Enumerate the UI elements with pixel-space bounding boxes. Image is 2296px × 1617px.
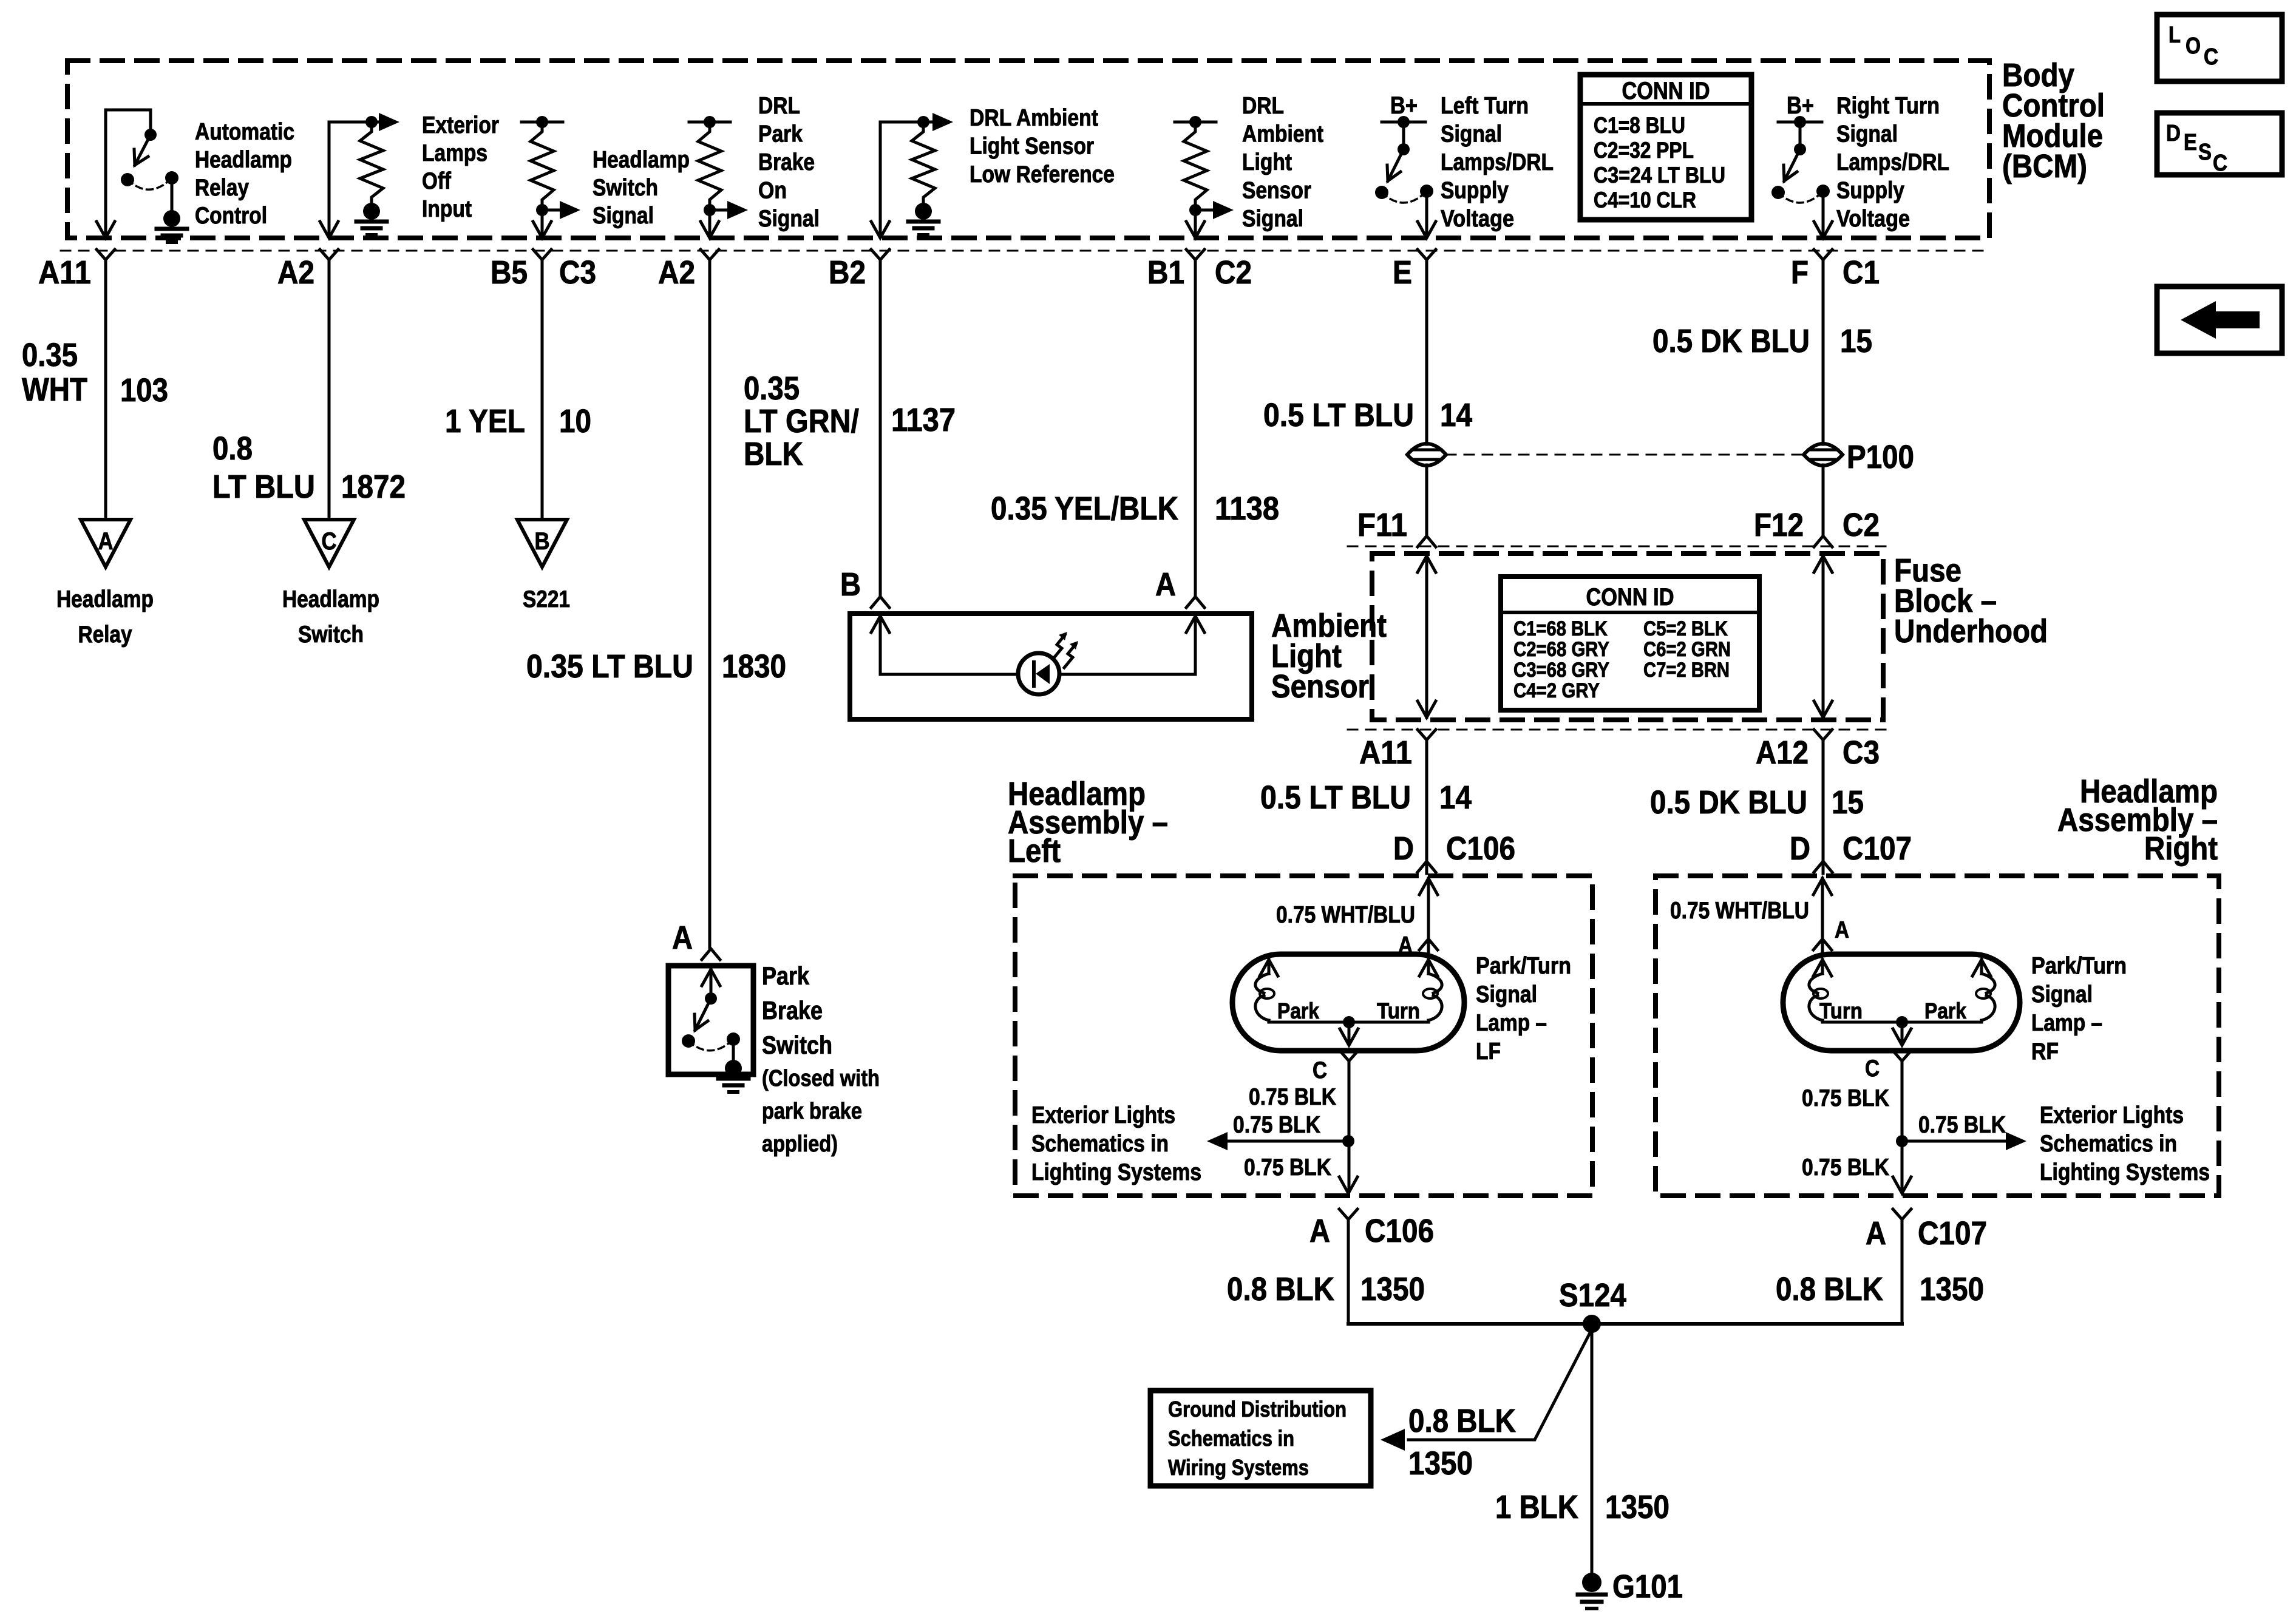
node R3 bottom junction (704, 204, 716, 216)
pin A C106 exit arrow (1339, 1177, 1357, 1193)
wire 103 WHT (104, 260, 107, 520)
resistor R2 headlamp switch signal (531, 125, 554, 206)
wire lamp RF ground leg (1901, 1061, 1904, 1191)
svg-text:Headlamp: Headlamp (593, 147, 690, 173)
wire 1872 LT BLU (328, 260, 331, 520)
svg-text:D: D (1393, 830, 1414, 867)
BCM harness connector dashed line (61, 250, 1985, 252)
photodiode light arrows (1053, 635, 1065, 659)
wire 1138 YEL/BLK (1194, 260, 1197, 597)
svg-text:1830: 1830 (722, 648, 786, 685)
Fuse Block - Underhood dashed box (1372, 554, 1883, 720)
svg-text:1350: 1350 (1360, 1271, 1425, 1307)
pin A C107 exit arrow (1893, 1177, 1911, 1193)
lamp RF common down arrow (1901, 1022, 1904, 1043)
svg-text:C107: C107 (1843, 830, 1912, 867)
resistor R3 DRL park brake (698, 125, 721, 206)
svg-text:B1: B1 (1147, 254, 1184, 291)
svg-text:C3: C3 (559, 254, 596, 291)
svg-text:S124: S124 (1559, 1277, 1626, 1314)
svg-text:G101: G101 (1612, 1568, 1683, 1605)
svg-text:Lighting Systems: Lighting Systems (1031, 1159, 1201, 1185)
wire lamp RF feed (1813, 878, 1832, 895)
svg-text:0.75 BLK: 0.75 BLK (1244, 1154, 1331, 1181)
svg-text:Voltage: Voltage (1441, 206, 1514, 232)
svg-text:0.35: 0.35 (744, 370, 800, 407)
svg-text:0.75 BLK: 0.75 BLK (1249, 1084, 1336, 1110)
svg-text:15: 15 (1840, 323, 1872, 359)
park brake switch moving contact (682, 1034, 695, 1048)
svg-text:Automatic: Automatic (195, 119, 294, 145)
svg-text:14: 14 (1440, 397, 1472, 433)
wire headlamp switch signal rail (521, 121, 563, 124)
wire 15 DK BLU upper (1822, 260, 1825, 444)
svg-text:C1=8 BLU: C1=8 BLU (1594, 113, 1685, 138)
svg-text:DRL: DRL (758, 93, 800, 119)
ground G101 (1582, 1573, 1601, 1592)
svg-text:Switch: Switch (762, 1031, 832, 1059)
photodiode D1 symbol (1036, 664, 1050, 684)
connector triangle A headlamp relay (81, 520, 131, 567)
wire B+ feed bar (1778, 121, 1822, 124)
svg-text:0.5 DK BLU: 0.5 DK BLU (1650, 784, 1807, 821)
switch moving contact (1375, 186, 1388, 199)
svg-text:Schematics in: Schematics in (1031, 1131, 1169, 1157)
svg-text:O: O (2186, 33, 2201, 59)
lamp LF turn filament (1419, 960, 1438, 976)
svg-text:C2: C2 (1843, 507, 1880, 543)
wire exterior lamps off top segment (329, 121, 373, 124)
svg-text:0.5 DK BLU: 0.5 DK BLU (1652, 323, 1810, 359)
svg-text:E: E (2184, 130, 2197, 155)
connector P100 dashed link (1446, 454, 1804, 456)
svg-text:A: A (672, 920, 693, 956)
pin B1 arrow (1186, 222, 1204, 238)
svg-text:D: D (1790, 830, 1810, 867)
wire 1350 left (1347, 1219, 1350, 1324)
svg-text:Headlamp: Headlamp (195, 147, 292, 173)
pin A C106 Y (1339, 1209, 1357, 1219)
Headlamp Assembly Left dashed box (1015, 876, 1592, 1196)
pin A11 arrow (97, 222, 115, 238)
svg-text:0.75 BLK: 0.75 BLK (1918, 1112, 2006, 1138)
sensor internal bus (880, 673, 1018, 676)
resistor R1 exterior lamps off (360, 125, 383, 204)
svg-text:S: S (2198, 140, 2212, 165)
pin C lamp LF Y (1340, 1051, 1358, 1061)
pin F12 chevron (1814, 536, 1832, 547)
wire A2 park brake drop (708, 210, 712, 237)
svg-text:E: E (1393, 254, 1412, 291)
svg-text:LF: LF (1476, 1039, 1501, 1065)
svg-text:C7=2 BRN: C7=2 BRN (1643, 659, 1730, 682)
svg-text:B5: B5 (491, 254, 528, 291)
svg-text:(BCM): (BCM) (2002, 148, 2087, 185)
svg-text:CONN ID: CONN ID (1586, 584, 1674, 611)
Ambient Light Sensor box (850, 614, 1252, 719)
splice S124 (1583, 1315, 1601, 1333)
node B+ junction (1398, 116, 1410, 128)
pin A lamp RF chevron (1813, 939, 1832, 950)
pin A park brake chevron (702, 949, 720, 960)
pin B2 arrow (871, 222, 889, 238)
pin F11 chevron (1418, 536, 1436, 547)
switch S-auto arm (135, 135, 151, 165)
svg-text:B: B (535, 528, 550, 555)
svg-text:DRL: DRL (1242, 93, 1284, 119)
svg-text:15: 15 (1832, 784, 1864, 821)
pin B2 connector Y (871, 249, 889, 260)
wire B+ feed bar (1382, 121, 1425, 124)
svg-text:B+: B+ (1787, 92, 1814, 119)
svg-text:C: C (2213, 151, 2227, 176)
svg-text:Light Sensor: Light Sensor (970, 134, 1094, 160)
svg-text:RF: RF (2031, 1039, 2059, 1065)
svg-text:C: C (2204, 44, 2218, 70)
wire ground rail S124 (1348, 1322, 1902, 1326)
wire lens to fuse block (1425, 465, 1428, 535)
park brake switch box (668, 966, 753, 1074)
svg-text:0.5 LT BLU: 0.5 LT BLU (1263, 397, 1414, 433)
wire 1350 right (1901, 1219, 1904, 1324)
svg-text:Exterior Lights: Exterior Lights (2040, 1102, 2184, 1128)
svg-text:Right Turn: Right Turn (1836, 93, 1940, 119)
svg-text:A2: A2 (658, 254, 695, 291)
svg-text:A11: A11 (38, 254, 91, 291)
wire S124 to ground distribution (1408, 1329, 1592, 1440)
svg-text:Turn: Turn (1819, 998, 1863, 1023)
svg-text:Ground Distribution: Ground Distribution (1168, 1397, 1347, 1422)
svg-text:Supply: Supply (1836, 178, 1904, 204)
svg-text:0.35 YEL/BLK: 0.35 YEL/BLK (991, 490, 1178, 527)
BCM CONN ID table (1580, 75, 1751, 220)
svg-text:L: L (2169, 22, 2181, 48)
node resistor R2 top (536, 116, 548, 128)
wire lamp LF ground leg (1348, 1061, 1351, 1191)
arrow to DRL Ambient Light Sensor Signal (1195, 209, 1215, 212)
svg-text:C2=32 PPL: C2=32 PPL (1594, 138, 1694, 163)
svg-text:B+: B+ (1390, 92, 1418, 119)
svg-text:CONN ID: CONN ID (1622, 78, 1710, 104)
svg-text:Signal: Signal (2031, 981, 2093, 1008)
lamp RF turn filament (1813, 960, 1832, 976)
photodiode D1 circle (1018, 653, 1059, 694)
node LF ground splice (1342, 1135, 1354, 1147)
svg-text:Left Turn: Left Turn (1441, 93, 1529, 119)
svg-text:Exterior Lights: Exterior Lights (1031, 1102, 1175, 1128)
svg-text:Brake: Brake (758, 149, 815, 175)
svg-text:Supply: Supply (1441, 178, 1509, 204)
svg-text:Switch: Switch (593, 175, 658, 201)
svg-text:0.75 WHT/BLU: 0.75 WHT/BLU (1276, 902, 1415, 928)
ground internal BCM relay (163, 210, 180, 227)
switch S-auto fixed contact (165, 171, 178, 185)
switch fixed contact (1816, 185, 1830, 198)
svg-text:Voltage: Voltage (1836, 206, 1910, 232)
svg-text:F: F (1791, 254, 1809, 291)
lamp LF internal bus (1269, 1021, 1428, 1024)
node RF ground splice (1896, 1135, 1908, 1147)
svg-text:Park/Turn: Park/Turn (1476, 953, 1571, 979)
park brake switch input arrow (702, 969, 720, 986)
park brake switch travel arc (688, 1039, 733, 1051)
fuse block connector dashed line bottom (1348, 729, 1891, 731)
pin A2 arrow (320, 222, 338, 238)
svg-text:Lamps/DRL: Lamps/DRL (1836, 149, 1949, 175)
pin A2 connector Y (320, 249, 338, 260)
svg-text:Park: Park (758, 121, 803, 147)
wire A2 exterior lamps off (328, 122, 331, 237)
inline connector P100 left lens (1407, 444, 1446, 466)
LOC box (2157, 15, 2282, 81)
svg-text:C2: C2 (1215, 254, 1252, 291)
wire lamp LF feed (1419, 878, 1438, 895)
svg-text:A: A (1866, 1215, 1886, 1252)
svg-text:B2: B2 (829, 254, 866, 291)
node R5 bottom junction (1189, 204, 1201, 216)
svg-text:1 BLK: 1 BLK (1495, 1489, 1578, 1525)
svg-text:Signal: Signal (758, 206, 820, 232)
pin A11 fuse connector Y (1418, 730, 1436, 740)
svg-text:0.35 LT BLU: 0.35 LT BLU (526, 648, 693, 685)
pin A2 park brake arrow (701, 222, 719, 238)
svg-text:0.5 LT BLU: 0.5 LT BLU (1260, 779, 1411, 816)
switch S-auto moving contact (121, 173, 134, 186)
svg-text:C107: C107 (1918, 1215, 1987, 1252)
svg-text:Wiring Systems: Wiring Systems (1168, 1455, 1309, 1480)
svg-text:Park/Turn: Park/Turn (2031, 953, 2127, 979)
svg-text:C: C (1313, 1057, 1327, 1083)
pin D left chevron (1418, 861, 1436, 872)
splice triangle B S221 (517, 520, 567, 567)
wire to exterior lights schematics left (1228, 1140, 1348, 1143)
Park/Turn Signal Lamp RF stadium (1783, 954, 2020, 1051)
svg-text:Input: Input (422, 196, 472, 222)
sensor pin B internal arrow (871, 616, 889, 632)
pin F connector Y (1814, 249, 1832, 260)
pin A2 park brake connector Y (701, 249, 719, 260)
svg-text:Signal: Signal (1836, 121, 1898, 147)
switch S-auto travel arc (127, 178, 172, 189)
svg-text:applied): applied) (762, 1131, 838, 1157)
svg-text:1350: 1350 (1605, 1489, 1669, 1525)
switch pivot (1398, 143, 1410, 155)
wire 1137 LT GRN/BLK (879, 260, 882, 597)
svg-text:A: A (98, 528, 114, 555)
pin D right chevron (1814, 861, 1832, 872)
svg-text:0.75 WHT/BLU: 0.75 WHT/BLU (1670, 898, 1809, 924)
inline connector P100 right lens (1804, 444, 1843, 466)
wire BCM relay control top segment (106, 109, 151, 112)
wire F drop (1822, 191, 1825, 237)
svg-text:C1=68 BLK: C1=68 BLK (1513, 617, 1608, 640)
switch arm (1388, 149, 1404, 181)
svg-text:Schematics in: Schematics in (2040, 1131, 2177, 1157)
switch pivot (1794, 143, 1806, 155)
park brake switch fixed contact (727, 1032, 740, 1046)
svg-text:C106: C106 (1446, 830, 1515, 867)
svg-text:D: D (2166, 121, 2181, 146)
svg-text:10: 10 (559, 403, 591, 439)
svg-text:C4=2 GRY: C4=2 GRY (1513, 679, 1600, 702)
svg-text:Signal: Signal (593, 203, 654, 229)
switch S-auto pivot (144, 129, 157, 141)
svg-text:1138: 1138 (1215, 490, 1279, 527)
switch fixed contact (1420, 185, 1433, 198)
svg-text:F12: F12 (1754, 507, 1804, 543)
svg-text:A11: A11 (1359, 734, 1412, 771)
svg-text:1350: 1350 (1920, 1271, 1984, 1307)
node resistor R5 top (1189, 116, 1201, 128)
lamp LF park filament (1260, 960, 1278, 976)
wire switch pivot lead (1402, 122, 1405, 149)
wire B1 drop (1194, 210, 1197, 237)
svg-text:1 YEL: 1 YEL (445, 403, 525, 439)
svg-text:Lamp –: Lamp – (2031, 1010, 2102, 1036)
svg-text:0.35: 0.35 (22, 337, 78, 373)
svg-text:Headlamp: Headlamp (282, 586, 379, 612)
svg-text:Underhood: Underhood (1894, 613, 2048, 649)
svg-text:103: 103 (120, 372, 168, 408)
svg-text:C3=24 LT BLU: C3=24 LT BLU (1594, 163, 1725, 188)
svg-text:Exterior: Exterior (422, 112, 499, 138)
svg-text:DRL Ambient: DRL Ambient (970, 105, 1098, 131)
svg-text:C106: C106 (1365, 1213, 1434, 1249)
wire to exterior lights schematics right (1902, 1140, 2005, 1143)
svg-text:Turn: Turn (1377, 998, 1420, 1023)
svg-text:A: A (1155, 566, 1176, 603)
wire park brake signal rail (689, 121, 730, 124)
pin A sensor chevron (1186, 597, 1204, 608)
Headlamp Assembly Right dashed box (1656, 876, 2219, 1196)
wire fixed contact to ground (171, 178, 174, 210)
wire switch pivot lead (1799, 122, 1802, 149)
arrow to Headlamp Switch Signal (542, 209, 562, 212)
wire fixed contact to case ground (732, 1039, 735, 1062)
svg-text:WHT: WHT (22, 371, 87, 408)
connector triangle C headlamp switch (304, 520, 354, 567)
switch travel arc (1778, 191, 1823, 203)
svg-text:0.8: 0.8 (212, 430, 253, 467)
node resistor R1 top (365, 116, 378, 128)
DESC box (2157, 113, 2282, 175)
wire 10 YEL (541, 260, 544, 520)
svg-text:1137: 1137 (891, 402, 956, 438)
svg-text:C5=2 BLK: C5=2 BLK (1643, 617, 1728, 640)
svg-text:On: On (758, 178, 787, 204)
svg-text:A12: A12 (1756, 734, 1809, 771)
pin A11 connector Y (97, 249, 115, 260)
fuse block connector dashed line top (1348, 546, 1891, 547)
wire B5 drop (541, 210, 544, 237)
svg-text:C3: C3 (1843, 734, 1880, 771)
wire B2 drop (879, 122, 882, 237)
svg-text:Switch: Switch (298, 622, 364, 648)
svg-text:0.8 BLK: 0.8 BLK (1227, 1271, 1334, 1307)
svg-text:C2=68 GRY: C2=68 GRY (1513, 638, 1609, 661)
Body Control Module (BCM) dashed box (67, 61, 1989, 238)
arrow to Exterior Lamps Off Input (372, 121, 382, 124)
pin B5 connector Y (533, 249, 551, 260)
svg-text:C3=68 GRY: C3=68 GRY (1513, 659, 1609, 682)
pin B1 connector Y (1186, 249, 1204, 260)
svg-text:Right: Right (2144, 830, 2218, 867)
node lamp RF common (1896, 1016, 1908, 1028)
arrow to DRL Park Brake On Signal (710, 209, 730, 212)
svg-text:0.8 BLK: 0.8 BLK (1408, 1403, 1516, 1439)
wire sensor signal rail (1175, 121, 1216, 124)
switch moving contact (1771, 186, 1785, 199)
pin A C107 Y (1893, 1209, 1911, 1219)
park brake switch pivot (705, 992, 717, 1005)
svg-text:A2: A2 (277, 254, 314, 291)
pin B5 arrow (533, 222, 551, 238)
pin A12 fuse connector Y (1814, 730, 1832, 740)
pin F arrow (1814, 222, 1832, 238)
svg-text:C6=2 GRN: C6=2 GRN (1643, 638, 1731, 661)
svg-text:Left: Left (1008, 833, 1061, 869)
pin E connector Y (1418, 249, 1436, 260)
svg-text:F11: F11 (1357, 507, 1407, 543)
pin A lamp LF chevron (1419, 939, 1438, 950)
svg-text:0.75 BLK: 0.75 BLK (1802, 1154, 1889, 1181)
svg-text:C: C (1865, 1056, 1880, 1082)
svg-text:Lighting Systems: Lighting Systems (2040, 1159, 2210, 1185)
svg-text:C4=10 CLR: C4=10 CLR (1594, 188, 1696, 212)
svg-text:Lamps: Lamps (422, 140, 487, 166)
ground internal BCM R1 (363, 203, 380, 220)
svg-text:0.8 BLK: 0.8 BLK (1776, 1271, 1883, 1307)
svg-text:Headlamp: Headlamp (56, 586, 154, 612)
svg-text:LT GRN/: LT GRN/ (744, 403, 859, 439)
svg-text:S221: S221 (523, 586, 570, 612)
wire low reference top segment (880, 121, 925, 124)
Ground Distribution Schematics box (1150, 1391, 1371, 1486)
back arrow box (2157, 286, 2282, 353)
svg-text:Light: Light (1242, 149, 1292, 175)
svg-text:A: A (1835, 917, 1849, 943)
svg-text:P100: P100 (1847, 439, 1914, 475)
svg-text:Relay: Relay (78, 622, 132, 648)
svg-text:C1: C1 (1843, 254, 1880, 291)
ground internal BCM R4 (915, 203, 932, 220)
svg-text:park brake: park brake (762, 1099, 862, 1124)
svg-text:14: 14 (1439, 779, 1472, 816)
node resistor R3 top (704, 116, 716, 128)
sensor pin A internal arrow (1186, 616, 1204, 632)
svg-text:Park: Park (1924, 998, 1966, 1023)
switch S-auto relay pivot lead (149, 110, 152, 135)
svg-text:Lamp –: Lamp – (1476, 1010, 1547, 1036)
node lamp LF common (1343, 1016, 1355, 1028)
pin E arrow (1418, 222, 1436, 238)
svg-text:BLK: BLK (744, 436, 803, 472)
svg-text:1872: 1872 (341, 469, 406, 505)
svg-text:Control: Control (195, 203, 267, 229)
wire E drop (1425, 191, 1428, 237)
switch arm (1784, 149, 1800, 181)
svg-text:LT BLU: LT BLU (212, 469, 315, 505)
svg-text:Park: Park (762, 961, 810, 990)
fuse block internal wire F11-A11 (1425, 556, 1428, 717)
node resistor R4 top (917, 116, 929, 128)
wire 1830 LT BLU (708, 260, 712, 947)
svg-text:Signal: Signal (1476, 981, 1537, 1008)
svg-text:0.75 BLK: 0.75 BLK (1802, 1085, 1889, 1111)
lamp RF park filament (1972, 960, 1991, 976)
resistor R5 sensor signal (1184, 125, 1207, 206)
svg-text:Signal: Signal (1242, 206, 1303, 232)
